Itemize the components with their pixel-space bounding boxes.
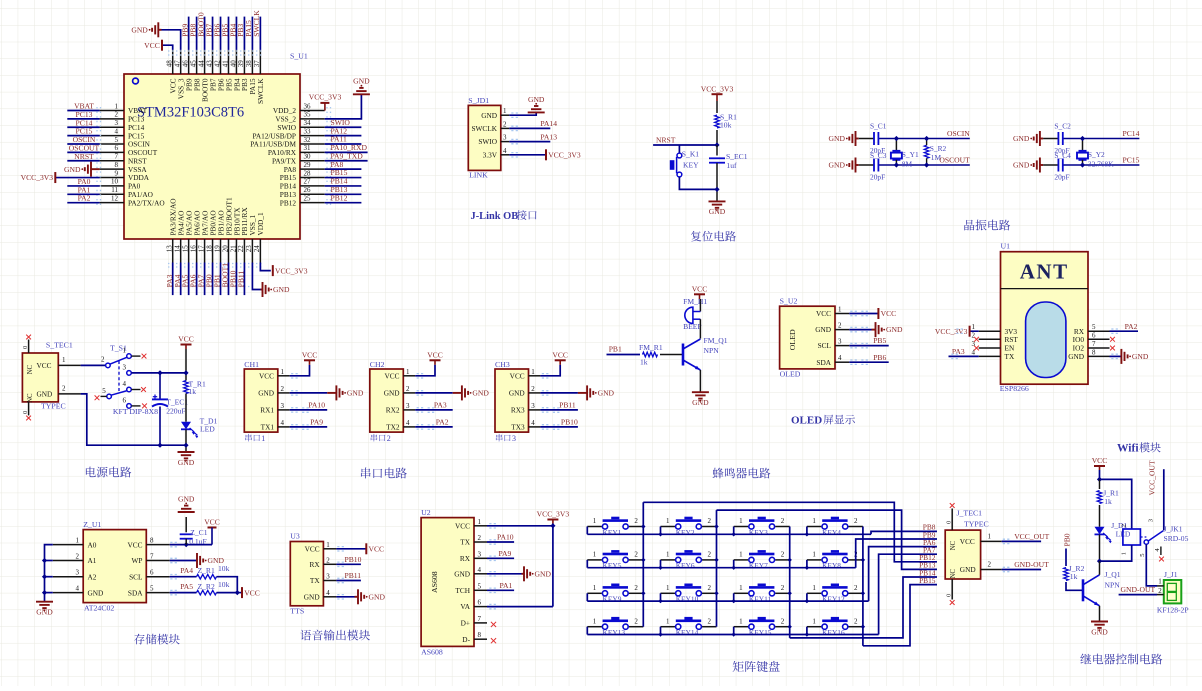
pin 5 OSCIN (left): [100, 143, 124, 145]
ground (WP): [195, 560, 198, 562]
pin 9 VDDA (left): [100, 177, 124, 179]
svg-text:GND: GND: [1091, 627, 1108, 636]
no-connect U1 pin2: [974, 337, 979, 342]
wire as608 GND: [487, 573, 522, 575]
pin 42 PB6 (top): [220, 50, 222, 74]
svg-text:SDA: SDA: [816, 358, 831, 367]
pin 2 GND (S_U2): [835, 329, 849, 331]
svg-text:KEY9: KEY9: [603, 595, 622, 604]
pin 29 PA8 (right): [300, 168, 325, 170]
svg-text:3: 3: [406, 402, 410, 410]
wire CH2 VCC: [415, 365, 435, 376]
pin 1 3V3 (U1): [979, 330, 1001, 332]
wire net PA14: [509, 127, 550, 129]
svg-text:GND: GND: [304, 592, 320, 601]
pin 1 VBAT (left): [100, 110, 124, 112]
svg-text:9: 9: [115, 169, 119, 177]
pin 2 RX (U3): [323, 563, 336, 565]
svg-text:1: 1: [76, 537, 80, 545]
svg-text:3: 3: [512, 434, 516, 443]
wire PB0 to J_R2: [1065, 549, 1067, 567]
power VCC (OLED): [877, 308, 879, 319]
svg-text:4: 4: [281, 419, 285, 427]
capacitor S_C4: [1057, 159, 1059, 172]
wire CH3 GND: [540, 392, 578, 394]
svg-text:VCC: VCC: [552, 351, 568, 360]
svg-text:PA3: PA3: [434, 401, 447, 410]
wire net PB3 (top): [243, 17, 245, 50]
svg-text:AS608: AS608: [430, 571, 439, 593]
svg-text:8: 8: [115, 161, 119, 169]
svg-text:20: 20: [221, 245, 229, 253]
svg-text:S_R2: S_R2: [930, 144, 947, 153]
svg-text:OSCOUT: OSCOUT: [939, 156, 970, 165]
capacitor S_EC1: [709, 157, 725, 159]
wire CH1 VCC: [290, 365, 310, 376]
wire net PB11 (U3): [336, 580, 361, 582]
pin 1 VCC (S_TEC1): [58, 364, 80, 366]
pin 39 PB3 (top): [243, 50, 245, 74]
svg-text:KEY11: KEY11: [749, 595, 772, 604]
svg-text:41: 41: [221, 60, 229, 68]
capacitor T_EC1: [159, 373, 161, 399]
wire pin 23 to GND: [252, 263, 260, 290]
svg-text:KF128-2P: KF128-2P: [1157, 605, 1189, 614]
svg-text:1: 1: [739, 617, 743, 625]
wire net OSCOUT: [67, 151, 99, 153]
svg-text:GND: GND: [535, 569, 552, 578]
svg-text:PB11: PB11: [345, 571, 362, 580]
pin 0 top (J_TEC1): [951, 509, 953, 531]
svg-text:CH3: CH3: [495, 360, 510, 369]
svg-text:Z_U1: Z_U1: [83, 520, 101, 529]
pin 30 PA9/TX (right): [300, 160, 325, 162]
pin 43 PB7 (top): [212, 50, 214, 74]
wire J_R1 to LED: [1099, 505, 1101, 527]
no-connect U1 pin7: [1110, 346, 1115, 351]
svg-text:VCC_3V3: VCC_3V3: [309, 93, 342, 102]
pin 1 VCC (U2): [474, 525, 487, 527]
svg-text:S_Y2: S_Y2: [1088, 150, 1105, 159]
svg-text:7: 7: [478, 615, 482, 623]
svg-text:6: 6: [1092, 331, 1096, 339]
svg-text:1: 1: [739, 584, 743, 592]
svg-text:13: 13: [166, 245, 174, 253]
svg-text:1: 1: [478, 518, 482, 526]
wire net PA10_RXD (right): [325, 151, 368, 153]
crystal S_Y1: [895, 139, 897, 151]
power VCC (U3): [365, 543, 367, 554]
svg-text:VCC_3V3: VCC_3V3: [935, 327, 968, 336]
svg-text:GND: GND: [829, 161, 846, 170]
svg-text:1k: 1k: [1104, 497, 1112, 506]
svg-text:2: 2: [988, 561, 992, 569]
svg-text:40: 40: [229, 60, 237, 68]
svg-text:12: 12: [111, 194, 119, 202]
power VCC (relay): [1094, 465, 1105, 467]
wire VCC to buzzer: [699, 299, 701, 312]
pin 32 PA11/USB/DM (right): [300, 143, 325, 145]
svg-text:PA14: PA14: [540, 119, 557, 128]
svg-text:1: 1: [666, 517, 670, 525]
svg-text:2: 2: [101, 356, 105, 364]
svg-text:PA9: PA9: [310, 418, 323, 427]
svg-text:2: 2: [478, 534, 482, 542]
svg-text:KEY13: KEY13: [603, 628, 626, 637]
svg-text:1: 1: [503, 107, 507, 115]
svg-text:GND: GND: [528, 95, 545, 104]
wire LED to node2: [1099, 534, 1101, 561]
wire GND down and across: [81, 394, 186, 445]
wire net PB14 (right): [325, 185, 362, 187]
pin 4 GND (U2): [474, 573, 487, 575]
switch contact 4 stub: [131, 389, 140, 391]
wire WP to ground: [170, 560, 197, 562]
svg-text:4: 4: [478, 566, 482, 574]
svg-text:TX1: TX1: [261, 423, 275, 432]
connector CH2 body: [370, 369, 404, 432]
svg-text:VCC: VCC: [302, 351, 318, 360]
svg-text:1: 1: [988, 532, 992, 540]
svg-text:RX3: RX3: [511, 406, 525, 415]
wire VCC/VA loop: [487, 525, 553, 527]
transistor FM_Q1 NPN: [682, 344, 685, 366]
power VCC (storage pin8): [208, 527, 217, 529]
pin 3 EN (U1): [979, 347, 1001, 349]
svg-text:2: 2: [708, 517, 712, 525]
svg-text:2: 2: [781, 584, 785, 592]
resistor FM_R1: [643, 352, 658, 357]
key switch S_K1: [677, 153, 682, 158]
svg-text:J_J1: J_J1: [1164, 570, 1178, 579]
wire net PA12 (right): [325, 135, 362, 137]
wire net PB0 (bottom): [212, 263, 214, 296]
wire VCC_3V3 to S_R1: [716, 101, 718, 113]
key KEY3: [734, 526, 749, 528]
power VCC_3V3 (J-Link): [545, 149, 547, 160]
connector J_J1 body: [1164, 580, 1182, 603]
ground (S_Y2 bottom): [1040, 164, 1043, 166]
title 串口电路: [361, 468, 371, 479]
svg-text:5: 5: [115, 136, 119, 144]
pin 45 PB8 (top): [196, 50, 198, 74]
wire net BOOT1 (bottom): [227, 263, 229, 296]
svg-text:17: 17: [197, 245, 205, 253]
svg-text:5: 5: [1092, 323, 1096, 331]
svg-text:26: 26: [304, 186, 312, 194]
svg-text:VCC: VCC: [455, 521, 470, 530]
svg-text:3: 3: [115, 119, 119, 127]
svg-text:2: 2: [854, 517, 858, 525]
svg-text:15: 15: [181, 245, 189, 253]
svg-text:2: 2: [708, 617, 712, 625]
no-connect bottom (J_TEC1): [950, 600, 955, 605]
svg-text:A2: A2: [88, 572, 97, 581]
wire net VBAT: [67, 110, 99, 112]
decor dots: [168, 50, 264, 52]
svg-text:SWIO: SWIO: [478, 137, 497, 146]
wire VCC to node: [1099, 470, 1101, 479]
module U3 TTS body: [290, 542, 323, 606]
svg-text:NC: NC: [27, 393, 34, 403]
svg-text:10k: 10k: [218, 580, 230, 589]
wire net PA13: [509, 141, 550, 143]
pin 11 PA1/AO (left): [100, 193, 124, 195]
svg-text:7: 7: [115, 153, 119, 161]
svg-text:14: 14: [173, 245, 181, 253]
svg-text:VCC: VCC: [37, 361, 52, 370]
svg-text:CH1: CH1: [244, 360, 259, 369]
title 存储模块: [134, 634, 144, 645]
capacitor S_C3: [873, 159, 875, 172]
wire Z_R1 to VCC: [217, 577, 238, 593]
key KEY6: [661, 559, 676, 561]
svg-text:32.768K: 32.768K: [1088, 160, 1114, 169]
wire contact 3 to VCC column: [131, 372, 186, 374]
power VCC_3V3 at pin 36: [324, 103, 326, 111]
pin 5 SDA (Z_U1): [146, 592, 169, 594]
svg-text:GND: GND: [1013, 134, 1030, 143]
svg-text:OLED: OLED: [791, 415, 822, 427]
wire net PA2 (esp): [1110, 330, 1139, 332]
ground (as608): [522, 573, 525, 575]
power VCC (buzzer): [694, 293, 705, 295]
wire net PB1: [607, 354, 641, 356]
svg-text:RX1: RX1: [260, 406, 274, 415]
svg-text:4: 4: [326, 589, 330, 597]
no-connect top (J_TEC1): [950, 503, 955, 508]
svg-text:GND: GND: [273, 285, 290, 294]
svg-text:2: 2: [634, 551, 638, 559]
svg-text:4: 4: [76, 585, 80, 593]
wire net PB10 (U3): [336, 563, 361, 565]
connector CH3 body: [495, 369, 529, 432]
pin 47 VSS_3 (top): [180, 50, 182, 74]
wire S_R1 to NRST node: [716, 130, 718, 145]
svg-text:GND: GND: [598, 389, 615, 398]
no-connect bottom (S_TEC1): [26, 416, 31, 421]
svg-text:GND: GND: [178, 458, 195, 467]
svg-text:2: 2: [634, 617, 638, 625]
svg-text:3: 3: [281, 402, 285, 410]
svg-text:2: 2: [387, 434, 391, 443]
capacitor Z_C1: [185, 517, 187, 532]
svg-text:KEY5: KEY5: [603, 561, 622, 570]
svg-text:1k: 1k: [1070, 572, 1078, 581]
pin 34 SWIO (right): [300, 126, 325, 128]
pin 21 PB10/TX (bottom): [235, 239, 237, 263]
svg-text:SCL: SCL: [129, 572, 143, 581]
symbol marker dot: [133, 78, 139, 84]
svg-text:1: 1: [812, 617, 816, 625]
svg-text:8: 8: [1092, 348, 1096, 356]
title 蜂鸣器电路: [713, 468, 724, 479]
svg-text:1: 1: [593, 551, 597, 559]
relay coil J_JK1: [1123, 529, 1141, 545]
pin 44 BOOT0 (top): [204, 50, 206, 74]
svg-text:FM_Q1: FM_Q1: [704, 336, 728, 345]
pin 4 TX (U1): [979, 355, 1001, 357]
svg-text:1: 1: [838, 306, 842, 314]
svg-text:10k: 10k: [720, 120, 732, 129]
svg-text:3: 3: [531, 402, 535, 410]
wire net PB5 (top): [227, 17, 229, 50]
svg-text:1: 1: [261, 434, 265, 443]
pin 2 GND (CH3): [529, 392, 541, 394]
pin 2 TX (U2): [474, 541, 487, 543]
wire net PA11 (right): [325, 143, 362, 145]
wire net PA10: [290, 409, 328, 411]
svg-text:PB11: PB11: [559, 401, 576, 410]
svg-text:TX: TX: [310, 576, 320, 585]
svg-text:18: 18: [205, 245, 213, 253]
ground (U3): [355, 596, 359, 598]
svg-text:NRST: NRST: [656, 135, 676, 144]
wire LED to GND row: [185, 429, 187, 452]
svg-text:U1: U1: [1001, 241, 1011, 250]
svg-text:GND: GND: [353, 77, 370, 86]
wire net PB10: [540, 426, 578, 428]
pin 1 VCC (CH1): [278, 375, 290, 377]
svg-text:6: 6: [115, 144, 119, 152]
ground (OLED): [872, 329, 876, 331]
svg-text:PB10: PB10: [561, 418, 578, 427]
wire key row 1 bus: [586, 527, 588, 535]
pin 1 GND (S_JD1): [501, 114, 510, 116]
svg-text:3: 3: [123, 363, 127, 371]
node S_Y2 bottom: [1080, 162, 1085, 167]
power VCC_3V3 (esp8266): [970, 330, 979, 332]
svg-text:KEY2: KEY2: [676, 528, 695, 537]
wire net PB6 (top): [220, 17, 222, 50]
pin 8 D- (U2): [474, 638, 487, 640]
wire NRST to key S_K1: [678, 145, 680, 153]
svg-text:AS608: AS608: [421, 648, 443, 657]
pin 48 VCC (top): [172, 50, 174, 74]
no-connect contact 6: [142, 404, 147, 409]
svg-text:1k: 1k: [640, 357, 648, 366]
wire buzzer to FM_Q1 collector: [699, 319, 701, 338]
node A1 junction: [42, 558, 47, 563]
svg-text:GND-OUT: GND-OUT: [1121, 585, 1156, 594]
svg-text:PB5: PB5: [873, 336, 886, 345]
svg-text:2: 2: [1120, 524, 1127, 527]
microcontroller U S_U1 STM32F103C8T6 body: [124, 74, 300, 239]
wire S_U2 GND: [849, 329, 871, 331]
svg-text:7: 7: [1092, 340, 1096, 348]
key KEY13: [587, 626, 602, 628]
svg-text:GND: GND: [709, 207, 726, 216]
wire S_EC1 to ground node: [716, 163, 718, 202]
svg-text:2: 2: [708, 551, 712, 559]
svg-text:5: 5: [102, 387, 106, 395]
power VCC (CH2): [430, 359, 441, 361]
svg-text:GND: GND: [178, 494, 195, 503]
pin 4 TX2 (CH2): [403, 426, 415, 428]
pin 38 PA15 (top): [251, 50, 253, 74]
svg-text:S_Y1: S_Y1: [902, 150, 919, 159]
pin 12 PA2/TX/AO (left): [100, 202, 124, 204]
svg-text:GND: GND: [369, 592, 386, 601]
wire net PB5: [849, 345, 888, 347]
wire net NRST: [67, 160, 99, 162]
svg-text:AT24C02: AT24C02: [84, 603, 114, 612]
wire net PB11 (bottom): [243, 263, 245, 296]
svg-text:CH2: CH2: [370, 360, 385, 369]
wire S_JD1 pin4 to VCC_3V3: [509, 154, 546, 156]
svg-text:2: 2: [854, 584, 858, 592]
wire net PB8 (top): [196, 17, 198, 50]
wire common to J_J1 pin1: [1146, 544, 1157, 586]
key KEY15: [734, 626, 749, 628]
key KEY4: [807, 526, 822, 528]
pin 40 PB4 (top): [235, 50, 237, 74]
svg-text:1: 1: [326, 541, 330, 549]
no-connect relay contact 4: [1159, 557, 1164, 562]
svg-text:J_Q1: J_Q1: [1105, 570, 1121, 579]
svg-text:2: 2: [708, 584, 712, 592]
ground (S_Y1 bottom): [856, 164, 859, 166]
svg-text:FM_R1: FM_R1: [639, 343, 663, 352]
ground (relay): [1091, 621, 1108, 623]
svg-text:VCC: VCC: [427, 351, 443, 360]
wire net OSCIN: [67, 143, 99, 145]
wire VCC to switch: [81, 364, 106, 366]
switch contact 1 stub: [131, 355, 140, 357]
resistor Z_R2 10k: [197, 590, 217, 595]
svg-text:VCC: VCC: [259, 371, 274, 380]
svg-text:PB15: PB15: [919, 576, 936, 585]
pin 1 A0 (Z_U1): [53, 544, 83, 546]
svg-text:27: 27: [304, 178, 312, 186]
svg-text:PB6: PB6: [873, 353, 886, 362]
svg-text:PA2: PA2: [78, 194, 91, 203]
pin 23 VSS_1 (bottom): [251, 239, 253, 263]
pin 2 GND (I_TEC1): [981, 569, 1002, 571]
pin 3 RX2 (CH2): [403, 409, 415, 411]
svg-text:NC: NC: [950, 540, 957, 550]
antenna divider line: [1001, 288, 1089, 290]
svg-text:U3: U3: [290, 532, 300, 541]
svg-text:GND: GND: [960, 565, 976, 574]
wire net VCC_OUT: [1002, 540, 1041, 542]
svg-text:22: 22: [237, 245, 245, 253]
svg-text:SWCLK: SWCLK: [471, 124, 497, 133]
node GND row: [183, 443, 188, 448]
svg-text:VCC: VCC: [144, 41, 160, 50]
svg-text:KEY10: KEY10: [676, 595, 699, 604]
svg-text:VCC_3V3: VCC_3V3: [548, 151, 581, 160]
wire CH3 VCC: [540, 365, 560, 376]
svg-text:8: 8: [150, 537, 154, 545]
svg-text:KEY8: KEY8: [822, 561, 841, 570]
pin 10 PA0 (left): [100, 185, 124, 187]
svg-text:VCC: VCC: [960, 537, 975, 546]
diode T_D1 LED: [181, 422, 191, 430]
pin 4 GND (Z_U1): [53, 592, 83, 594]
svg-text:D-: D-: [462, 635, 470, 644]
wire net PA8 (right): [325, 168, 362, 170]
pin 24 VDD_1 (bottom): [259, 239, 261, 263]
wire emitter to GND: [699, 370, 701, 392]
svg-text:1: 1: [1120, 552, 1127, 555]
pin 37 SWCLK (top): [259, 50, 261, 74]
svg-text:S_C3: S_C3: [870, 151, 887, 160]
no-connect top (S_TEC1): [26, 335, 31, 340]
pin 2 GND (CH2): [403, 392, 415, 394]
connector CH1 body: [244, 369, 277, 432]
svg-text:2: 2: [281, 385, 285, 393]
